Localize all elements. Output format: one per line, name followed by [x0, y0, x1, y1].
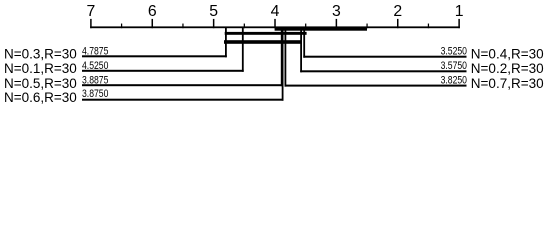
connector N=0.6,R=30 rank 3.8750: [282, 27, 284, 100]
svg-text:7: 7: [87, 3, 96, 20]
svg-text:4.7875: 4.7875: [82, 46, 108, 58]
label line N=0.1,R=30: [82, 70, 244, 72]
connector N=0.4,R=30 rank 3.5250: [303, 27, 305, 57]
label line N=0.3,R=30: [82, 55, 227, 57]
svg-text:4.5250: 4.5250: [82, 60, 108, 72]
label line N=0.2,R=30: [300, 70, 466, 72]
major ticks 7..1: [90, 19, 460, 28]
svg-text:5: 5: [209, 3, 218, 20]
svg-text:6: 6: [148, 3, 157, 20]
label line N=0.7,R=30: [285, 85, 467, 87]
svg-text:4: 4: [271, 3, 280, 20]
svg-text:N=0.3,R=30: N=0.3,R=30: [4, 47, 77, 62]
svg-text:3.8875: 3.8875: [82, 74, 108, 86]
label line N=0.5,R=30: [82, 84, 283, 86]
svg-text:N=0.7,R=30: N=0.7,R=30: [471, 76, 544, 91]
connector N=0.2,R=30 rank 3.5750: [300, 27, 302, 72]
svg-text:3.5250: 3.5250: [441, 45, 467, 57]
connector N=0.3,R=30 rank 4.7875: [225, 27, 227, 57]
label line N=0.4,R=30: [303, 56, 466, 58]
axis line (ranks 7 to 1): [90, 26, 460, 28]
connector N=0.7,R=30 rank 3.8250: [285, 27, 287, 86]
svg-text:3: 3: [332, 3, 341, 20]
clique bar B (4.7875 to 3.5750): [224, 40, 301, 44]
svg-text:N=0.5,R=30: N=0.5,R=30: [4, 76, 77, 91]
svg-text:N=0.1,R=30: N=0.1,R=30: [4, 61, 77, 76]
clique bar U (rank 4.0 to 2.5): [275, 28, 367, 31]
svg-text:N=0.2,R=30: N=0.2,R=30: [471, 61, 544, 76]
svg-text:3.8250: 3.8250: [441, 75, 467, 87]
svg-text:N=0.4,R=30: N=0.4,R=30: [471, 47, 544, 62]
minor ticks 6.5..1.5: [121, 24, 429, 29]
svg-text:3.8750: 3.8750: [82, 88, 108, 100]
axis rank numbers: [87, 3, 464, 20]
svg-text:N=0.6,R=30: N=0.6,R=30: [4, 90, 77, 105]
connector N=0.5,R=30 rank 3.8875: [281, 27, 283, 86]
svg-text:1: 1: [455, 3, 464, 20]
clique bar L (4.7875 to 3.5250): [225, 32, 307, 35]
svg-text:3.5750: 3.5750: [441, 60, 467, 72]
svg-text:2: 2: [393, 3, 402, 20]
label line N=0.6,R=30: [82, 99, 284, 101]
connector N=0.1,R=30 rank 4.5250: [242, 27, 244, 72]
